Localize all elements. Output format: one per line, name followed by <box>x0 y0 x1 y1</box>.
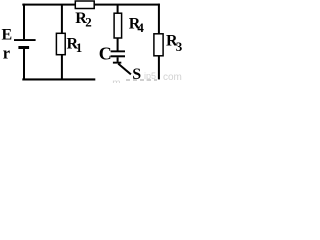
svg-text:3: 3 <box>176 39 182 54</box>
svg-text:S: S <box>132 66 141 83</box>
svg-text:m: m <box>112 78 120 83</box>
svg-text:r: r <box>3 44 10 63</box>
svg-text:ip5: ip5 <box>144 71 156 81</box>
svg-text:1: 1 <box>76 40 83 55</box>
svg-text:4: 4 <box>137 20 144 35</box>
svg-text:2: 2 <box>85 15 92 30</box>
svg-text:com: com <box>163 72 182 83</box>
svg-text:E: E <box>2 27 13 44</box>
svg-text:C: C <box>99 44 112 64</box>
